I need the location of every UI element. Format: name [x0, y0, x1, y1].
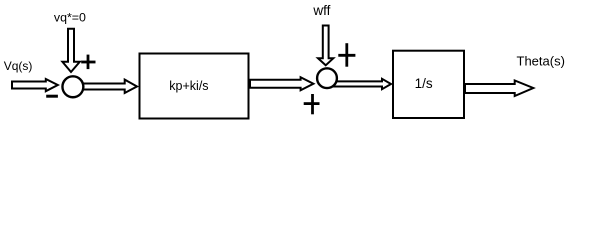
svg-text:Theta(s): Theta(s): [517, 54, 565, 69]
svg-text:kp+ki/s: kp+ki/s: [169, 79, 208, 93]
svg-text:1/s: 1/s: [415, 76, 433, 91]
svg-text:Vq(s): Vq(s): [4, 59, 33, 73]
svg-text:wff: wff: [312, 3, 330, 18]
svg-text:vq*=0: vq*=0: [54, 11, 86, 25]
